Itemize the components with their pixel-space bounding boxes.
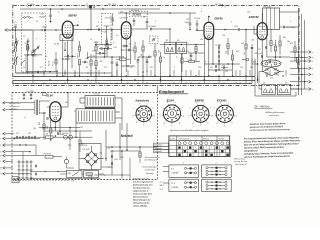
svg-text:Langwelle: Langwelle: [154, 151, 162, 153]
svg-text:vorbehalten: vorbehalten: [269, 114, 279, 117]
svg-text:C11: C11: [115, 63, 118, 65]
wire osc box: [104, 25, 110, 27]
output transformer winding: [35, 100, 37, 116]
wire top rail g1: [20, 8, 160, 10]
svg-text:56k: 56k: [157, 50, 159, 53]
cathode resistor R30: [50, 128, 52, 133]
svg-text:Achtung!: Achtung!: [146, 172, 154, 175]
wire y66 segment: [122, 65, 136, 67]
svg-text:987 12⋅b: 987 12⋅b: [108, 4, 117, 6]
svg-text:R1 1M: R1 1M: [54, 43, 60, 45]
resistor R3 screen: [78, 46, 80, 51]
svg-text:Empfangsteil: Empfangsteil: [159, 89, 185, 94]
svg-text:b: b: [183, 115, 184, 117]
tube V1 top cap wire: [73, 24, 78, 26]
svg-text:Drehstromkreis: Drehstromkreis: [179, 137, 191, 140]
power transformer upper box: [85, 96, 115, 108]
resistor R31 horizontal: [46, 136, 54, 139]
svg-text:GT 209: GT 209: [94, 94, 100, 96]
svg-text:9: 9: [232, 123, 233, 125]
wave switch contacts top: [24, 17, 26, 19]
tube V1 under-box: [60, 35, 73, 41]
wire x27.5 to bus: [27, 62, 29, 73]
dots on bus 3: [43, 82, 44, 83]
tube V4 left wire: [254, 33, 257, 35]
svg-text:Schaltstel.: Schaltstel.: [154, 144, 162, 147]
svg-text:C31: C31: [225, 71, 228, 73]
left terminals column: [3, 132, 5, 135]
junction dots V5 area: [43, 112, 45, 114]
svg-text:5: 5: [139, 103, 140, 105]
capacitor C16b: [146, 60, 149, 62]
svg-text:3: 3: [132, 115, 133, 117]
svg-text:(Vergl.Masse): (Vergl.Masse): [244, 149, 258, 152]
table circle row: [178, 142, 181, 145]
svg-text:1: 1: [224, 125, 225, 127]
tube V3 leads down: [203, 38, 205, 81]
capacitor C25: [190, 54, 193, 56]
table header separators: [169, 140, 230, 142]
tube V5 EL84: [50, 102, 61, 122]
svg-text:C34: C34: [241, 43, 244, 45]
svg-text:C51: C51: [108, 148, 111, 150]
horizontal bus line 2: [13, 80, 255, 82]
svg-text:5: 5: [167, 102, 168, 104]
svg-text:der Wicklungen: der Wicklungen: [145, 159, 157, 161]
resistor R7: [106, 43, 108, 48]
svg-text:L2: L2: [23, 67, 25, 69]
svg-text:C18: C18: [120, 11, 123, 13]
svg-text:C7 1000pF: C7 1000pF: [61, 59, 69, 61]
svg-text:56k: 56k: [34, 54, 36, 57]
capacitor C22: [196, 23, 199, 25]
wire V2 anode to V3: [160, 28, 170, 30]
svg-text:HD 3000A: HD 3000A: [131, 9, 140, 12]
svg-text:Anheizkreis: Anheizkreis: [134, 100, 150, 103]
socket view S1: [136, 106, 152, 122]
svg-text:5k: 5k: [163, 57, 165, 59]
svg-text:3: 3: [231, 21, 232, 23]
svg-text:2: 2: [184, 147, 185, 149]
svg-text:ZF: ~468 kHz: ZF: ~468 kHz: [254, 106, 271, 109]
svg-text:R22: R22: [253, 62, 256, 64]
svg-text:3: 3: [160, 115, 161, 117]
bridge rectifier box: [79, 144, 101, 170]
capacitor C4 with dot: [66, 55, 68, 58]
tube V3 anode right: [214, 29, 232, 31]
capacitor cluster C9: [100, 47, 102, 50]
dashed run to FN: [19, 180, 70, 182]
svg-text:C7: C7: [85, 59, 87, 61]
wires transformer to frame: [280, 11, 300, 13]
wire input coils: [15, 30, 17, 44]
svg-text:g: g: [312, 89, 313, 91]
svg-text:Gr1: Gr1: [100, 153, 103, 155]
svg-text:a: a: [36, 38, 37, 40]
cap stack C5a: [27, 40, 30, 42]
svg-text:C45: C45: [33, 128, 36, 130]
tube V5 leads: [54, 122, 56, 131]
resistor R5a horizontal: [120, 58, 127, 60]
tube V2 ECH81: [121, 22, 131, 39]
wires from IF boxes: [169, 54, 171, 77]
svg-text:R4: R4: [86, 67, 88, 69]
svg-text:b: b: [236, 116, 237, 118]
svg-text:Lautsprecher: Lautsprecher: [9, 105, 20, 108]
svg-text:R6: R6: [100, 61, 102, 63]
svg-text:9: 9: [179, 122, 180, 124]
resistor R11: [159, 57, 161, 62]
grid components under V5: [43, 124, 45, 129]
svg-text:1: 1: [183, 163, 184, 165]
svg-text:4: 4: [155, 21, 156, 23]
wires V4 zone verticals: [251, 44, 253, 64]
wire antenna to V1 grid: [32, 29, 62, 31]
svg-text:TR 14 A3: TR 14 A3: [263, 5, 271, 8]
wire EL84 anode to border: [67, 93, 69, 108]
svg-text:Netzteil: Netzteil: [121, 134, 133, 138]
wire y64 under V3: [204, 63, 240, 65]
wire y73: [16, 72, 113, 74]
tube V3 top cap: [208, 17, 210, 22]
resistor R16: [245, 44, 247, 49]
svg-text:125 1000pF: 125 1000pF: [286, 27, 296, 29]
frame bottom box dashed border: [12, 93, 158, 180]
resistor R8: [134, 47, 136, 52]
svg-text:s: s: [147, 103, 148, 105]
svg-text:R8: R8: [129, 43, 131, 45]
svg-text:R32 0,5M: R32 0,5M: [44, 153, 52, 155]
dashed box input band filter: [22, 13, 46, 72]
dashed box label ECH81: [130, 11, 148, 17]
svg-text:2: 2: [216, 163, 217, 165]
svg-text:C46: C46: [84, 145, 87, 147]
svg-text:C11: C11: [104, 67, 107, 69]
svg-text:C9 50: C9 50: [94, 42, 99, 44]
svg-text:Gleichstromwiderst.: Gleichstromwiderst.: [145, 156, 161, 159]
resistor R1: [26, 45, 28, 50]
mains switch box NSF: [67, 171, 83, 178]
cluster between V2 and IF boxes: [138, 56, 152, 58]
svg-text:mit der vorgesehenen: mit der vorgesehenen: [133, 180, 154, 183]
transformer core lines: [85, 107, 115, 109]
svg-text:110 220V: 110 220V: [27, 91, 35, 93]
svg-text:C27 100: C27 100: [215, 45, 221, 47]
wires output transformer to speaker terminals: [5, 102, 35, 104]
svg-text:C38 0,1µF: C38 0,1µF: [254, 53, 262, 55]
variable cap C3 trimmer: [36, 46, 38, 49]
svg-text:C44: C44: [65, 102, 68, 104]
right edge terminals: [290, 51, 308, 53]
capacitor C125 1000pF: [282, 26, 284, 29]
svg-text:Außenspannung erst: Außenspannung erst: [132, 183, 153, 186]
V2 stem cluster: [123, 45, 125, 48]
svg-text:C14: C14: [114, 47, 117, 49]
svg-text:3: 3: [188, 116, 189, 118]
bottom band wires: [30, 171, 67, 173]
svg-text:b: b: [312, 57, 313, 59]
table filled squares: [178, 146, 180, 148]
svg-text:R19: R19: [283, 37, 286, 39]
svg-text:500pF: 500pF: [185, 22, 191, 24]
svg-text:R33: R33: [68, 145, 71, 147]
svg-text:L: L: [0, 161, 1, 163]
svg-text:C16: C16: [136, 62, 139, 64]
svg-text:Anschluß für 2.: Anschluß für 2.: [9, 102, 21, 105]
IF transformer box 2: [176, 42, 187, 53]
wire column x33: [32, 30, 34, 51]
svg-text:2: 2: [290, 21, 291, 23]
svg-text:C23: C23: [235, 26, 238, 28]
horizontal bus line 3: [13, 83, 252, 85]
resistor R34: [79, 140, 81, 145]
svg-text:Netzspannung be-: Netzspannung be-: [133, 201, 150, 204]
potentiometer: [64, 159, 68, 163]
resistor R32 0.5M horizontal: [45, 156, 53, 159]
svg-text:R11: R11: [150, 67, 153, 69]
resistor R5: [95, 46, 97, 51]
tube V1 EBF80: [62, 21, 73, 38]
tube V3 grid left wire: [196, 30, 204, 32]
svg-text:7: 7: [210, 108, 211, 110]
cathode cap C43: [56, 132, 58, 135]
wire mid horizontal y57: [88, 56, 120, 58]
wires cluster V3 zone: [160, 44, 204, 46]
trimmer cap inside: [152, 38, 155, 40]
svg-text:9: 9: [222, 147, 223, 149]
netzteil wiring band: [39, 127, 80, 129]
svg-text:7: 7: [211, 147, 212, 149]
svg-text:10k: 10k: [46, 134, 49, 136]
resistor R12: [227, 44, 229, 49]
svg-text:S1: S1: [108, 167, 110, 169]
svg-text:T: T: [0, 138, 1, 140]
svg-text:s: s: [204, 103, 205, 105]
svg-text:12 V: 12 V: [171, 183, 176, 185]
svg-text:Arbeiten müssen: Arbeiten müssen: [132, 177, 150, 180]
resistor R18: [274, 46, 276, 51]
connector box bottom-left: [169, 179, 199, 191]
tuning coil L1a: [14, 44, 16, 52]
tube V2 anode right: [131, 28, 148, 30]
svg-text:7: 7: [152, 108, 153, 110]
wire mid horizontal y44.5: [95, 44, 112, 46]
svg-text:Zf1: Zf1: [263, 82, 265, 84]
svg-text:C7 500: C7 500: [101, 31, 106, 33]
svg-text:Zf2: Zf2: [177, 40, 179, 42]
pilot lamp box bottom left: [12, 177, 19, 183]
svg-text:Abweichungen der: Abweichungen der: [132, 199, 151, 201]
tube V4 EABC80: [257, 23, 267, 40]
tube V1 leads to bus: [62, 38, 64, 76]
wires from left terminals: [5, 133, 14, 135]
trimmer cap CT2: [33, 49, 36, 51]
frame Empfangsteil outer dash-dot border: [13, 6, 299, 86]
svg-text:Zf2: Zf2: [285, 82, 287, 84]
svg-text:5: 5: [196, 103, 197, 105]
resistor R10: [154, 51, 156, 56]
wire x91 down: [90, 8, 92, 29]
svg-text:EBF80: EBF80: [215, 16, 224, 20]
svg-text:7-pol und der 9p: 7-pol und der 9p: [234, 164, 246, 166]
resistor R14 horizontal: [189, 61, 195, 63]
fuse box: [84, 171, 99, 178]
table grid verticals: [176, 146, 178, 157]
svg-text:C9: C9: [90, 39, 92, 41]
svg-text:Umschaltungen: Umschaltungen: [142, 165, 157, 168]
wires into connector boxes: [163, 166, 169, 168]
junction x112: [111, 29, 113, 31]
dial lamp blob on frame: [89, 6, 92, 9]
capacitor C12: [116, 63, 119, 65]
svg-text:R13: R13: [236, 51, 239, 53]
svg-text:EBF80: EBF80: [69, 14, 78, 18]
svg-text:e: e: [312, 74, 313, 76]
frame tick marks left: [30, 5, 32, 7]
svg-text:C8: C8: [96, 26, 98, 28]
svg-text:1: 1: [200, 125, 201, 127]
bridge rectifier: [85, 151, 99, 165]
svg-text:0: 0: [98, 22, 99, 24]
socket view EBF80: [192, 105, 209, 122]
resistor R21: [296, 58, 298, 63]
junction dots mid: [189, 29, 191, 31]
svg-text:Quellm.: Quellm.: [170, 138, 176, 140]
speaker terminals left: [3, 102, 5, 105]
loudspeaker oval: [261, 60, 281, 67]
svg-text:7: 7: [181, 107, 182, 109]
horizontal bus line 1: [13, 76, 255, 78]
svg-text:s: s: [228, 102, 229, 104]
vertical feed lines right side: [298, 8, 300, 95]
connector box top-left: [169, 165, 199, 178]
resistor R38: [139, 152, 141, 157]
ground x88: [87, 58, 89, 60]
svg-text:3: 3: [212, 116, 213, 118]
frame tick marks right: [222, 5, 224, 7]
junction dots row y73: [27, 72, 28, 73]
svg-text:5: 5: [220, 102, 221, 104]
resistor R20: [294, 47, 296, 52]
resistor R13: [231, 55, 233, 60]
svg-text:R5 1M: R5 1M: [119, 57, 125, 59]
tone filter unit 1: [262, 84, 276, 94]
svg-text:56k: 56k: [287, 41, 290, 43]
capacitor C20: [133, 18, 135, 20]
capacitor C13: [112, 13, 114, 19]
resistor R2: [32, 51, 34, 56]
capacitor C19 top: [146, 20, 149, 22]
resistor R19: [279, 41, 281, 46]
svg-text:1: 1: [143, 124, 144, 126]
wire top rail to V3: [118, 12, 196, 14]
balance diamond network: [263, 67, 280, 75]
svg-text:die Spannung ent-: die Spannung ent-: [133, 186, 150, 189]
trimmer cap CT1: [15, 40, 18, 42]
tube V2 top cap: [125, 13, 127, 22]
ground under V1 cathode: [64, 50, 66, 52]
svg-text:C42: C42: [28, 133, 31, 135]
svg-text:C30: C30: [210, 67, 213, 69]
capacitor C8 coupling: [97, 28, 99, 31]
electrolytic caps 50uF: [64, 135, 68, 139]
svg-text:1: 1: [171, 125, 172, 127]
svg-text:C39: C39: [268, 60, 271, 62]
svg-text:C13 1000pF: C13 1000pF: [105, 18, 114, 20]
svg-text:R3 1M: R3 1M: [76, 54, 78, 60]
table frame: [169, 136, 230, 157]
svg-text:EABC80: EABC80: [249, 16, 259, 19]
svg-text:R2 56k: R2 56k: [49, 60, 51, 66]
svg-text:Austausch von Bandfilterspulen: Austausch von Bandfilterspulen möglich: [169, 129, 209, 132]
capacitor C11: [111, 61, 114, 63]
svg-text:R29: R29: [38, 122, 40, 125]
resistor R17: [270, 41, 272, 46]
svg-text:C25: C25: [186, 51, 189, 53]
selector verticals from terminals: [35, 145, 37, 156]
svg-text:4a: 4a: [116, 35, 118, 37]
table row label boxes: [154, 143, 169, 146]
tube V1 anode wire right: [73, 29, 95, 31]
svg-text:R9: R9: [140, 54, 142, 56]
svg-text:4,7k: 4,7k: [189, 59, 192, 61]
vertical stubs to bus: [43, 70, 45, 76]
svg-text:s: s: [175, 102, 176, 104]
resistor R9: [142, 46, 144, 51]
switch contact diagonal: [21, 60, 25, 64]
wires transformer connections: [80, 97, 85, 99]
svg-text:Lg 2: Lg 2: [160, 189, 163, 191]
svg-text:ECH81: ECH81: [217, 98, 227, 102]
svg-text:und TA 5Ω: und TA 5Ω: [9, 108, 18, 111]
sub-box around speaker filters: [254, 59, 256, 97]
svg-text:C19: C19: [143, 16, 146, 18]
resistor R6: [95, 61, 97, 66]
svg-text:im Netzteil: im Netzteil: [145, 168, 155, 171]
svg-text:R16: R16: [250, 67, 253, 69]
wire y54.9: [24, 54, 42, 56]
svg-text:C35: C35: [247, 11, 250, 13]
svg-text:C41: C41: [16, 133, 19, 135]
capacitor C23 coupling V3-V4: [237, 28, 239, 31]
svg-text:C36: C36: [251, 39, 254, 41]
svg-text:a: a: [312, 52, 313, 54]
tuning coil L1: [14, 57, 16, 65]
tube V4 top cap: [261, 13, 263, 23]
IF transformer box 1: [165, 42, 176, 53]
svg-text:C32: C32: [222, 65, 225, 67]
socket view ECH81: [216, 105, 233, 122]
svg-text:Ratioelt: Ratioelt: [219, 137, 225, 140]
svg-text:4n7: 4n7: [92, 51, 95, 53]
resistor R4: [78, 60, 80, 65]
wire section link vertical: [157, 86, 159, 93]
svg-text:Zf1: Zf1: [166, 40, 168, 42]
svg-text:C2: C2: [23, 36, 25, 38]
svg-text:C33: C33: [240, 67, 243, 69]
svg-text:C35: C35: [270, 78, 273, 80]
svg-text:NSF: NSF: [68, 173, 71, 175]
svg-text:achten. (Skala): achten. (Skala): [133, 204, 147, 207]
svg-text:C51 10µF: C51 10µF: [82, 149, 89, 151]
svg-text:C26: C26: [222, 35, 225, 37]
dashed box oscillator section: [102, 14, 112, 46]
svg-text:Vorkreis: Vorkreis: [203, 137, 209, 140]
power transformer lower box: [76, 109, 115, 123]
svg-text:b: b: [190, 54, 191, 56]
wire y71.6 with ground: [26, 71, 58, 73]
svg-text:50+50µF: 50+50µF: [62, 133, 68, 135]
